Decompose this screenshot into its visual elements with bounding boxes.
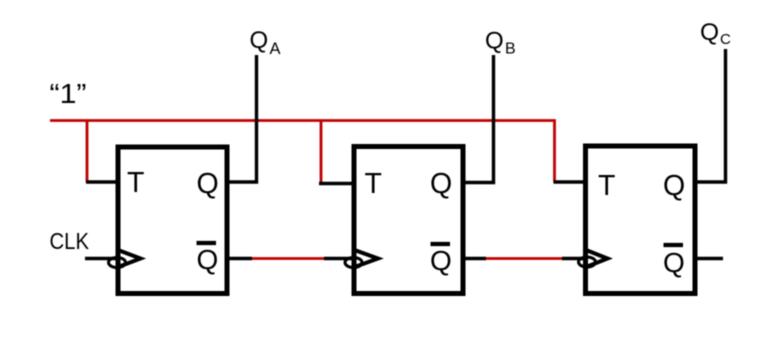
svg-text:“1”: “1” xyxy=(50,77,87,109)
svg-text:Q: Q xyxy=(663,247,685,278)
svg-text:Q: Q xyxy=(485,28,504,55)
svg-text:Q: Q xyxy=(250,27,269,54)
svg-text:Q: Q xyxy=(430,245,452,276)
svg-text:Q: Q xyxy=(430,168,452,200)
svg-text:C: C xyxy=(720,31,731,48)
svg-text:Q: Q xyxy=(197,244,219,275)
svg-text:B: B xyxy=(505,41,516,58)
svg-text:Q: Q xyxy=(197,168,219,200)
svg-text:CLK: CLK xyxy=(50,228,90,254)
svg-text:Q: Q xyxy=(663,170,685,202)
svg-text:T: T xyxy=(365,168,382,200)
svg-text:A: A xyxy=(270,40,281,58)
svg-text:T: T xyxy=(598,170,615,202)
svg-text:T: T xyxy=(127,167,144,199)
svg-text:Q: Q xyxy=(700,19,719,46)
